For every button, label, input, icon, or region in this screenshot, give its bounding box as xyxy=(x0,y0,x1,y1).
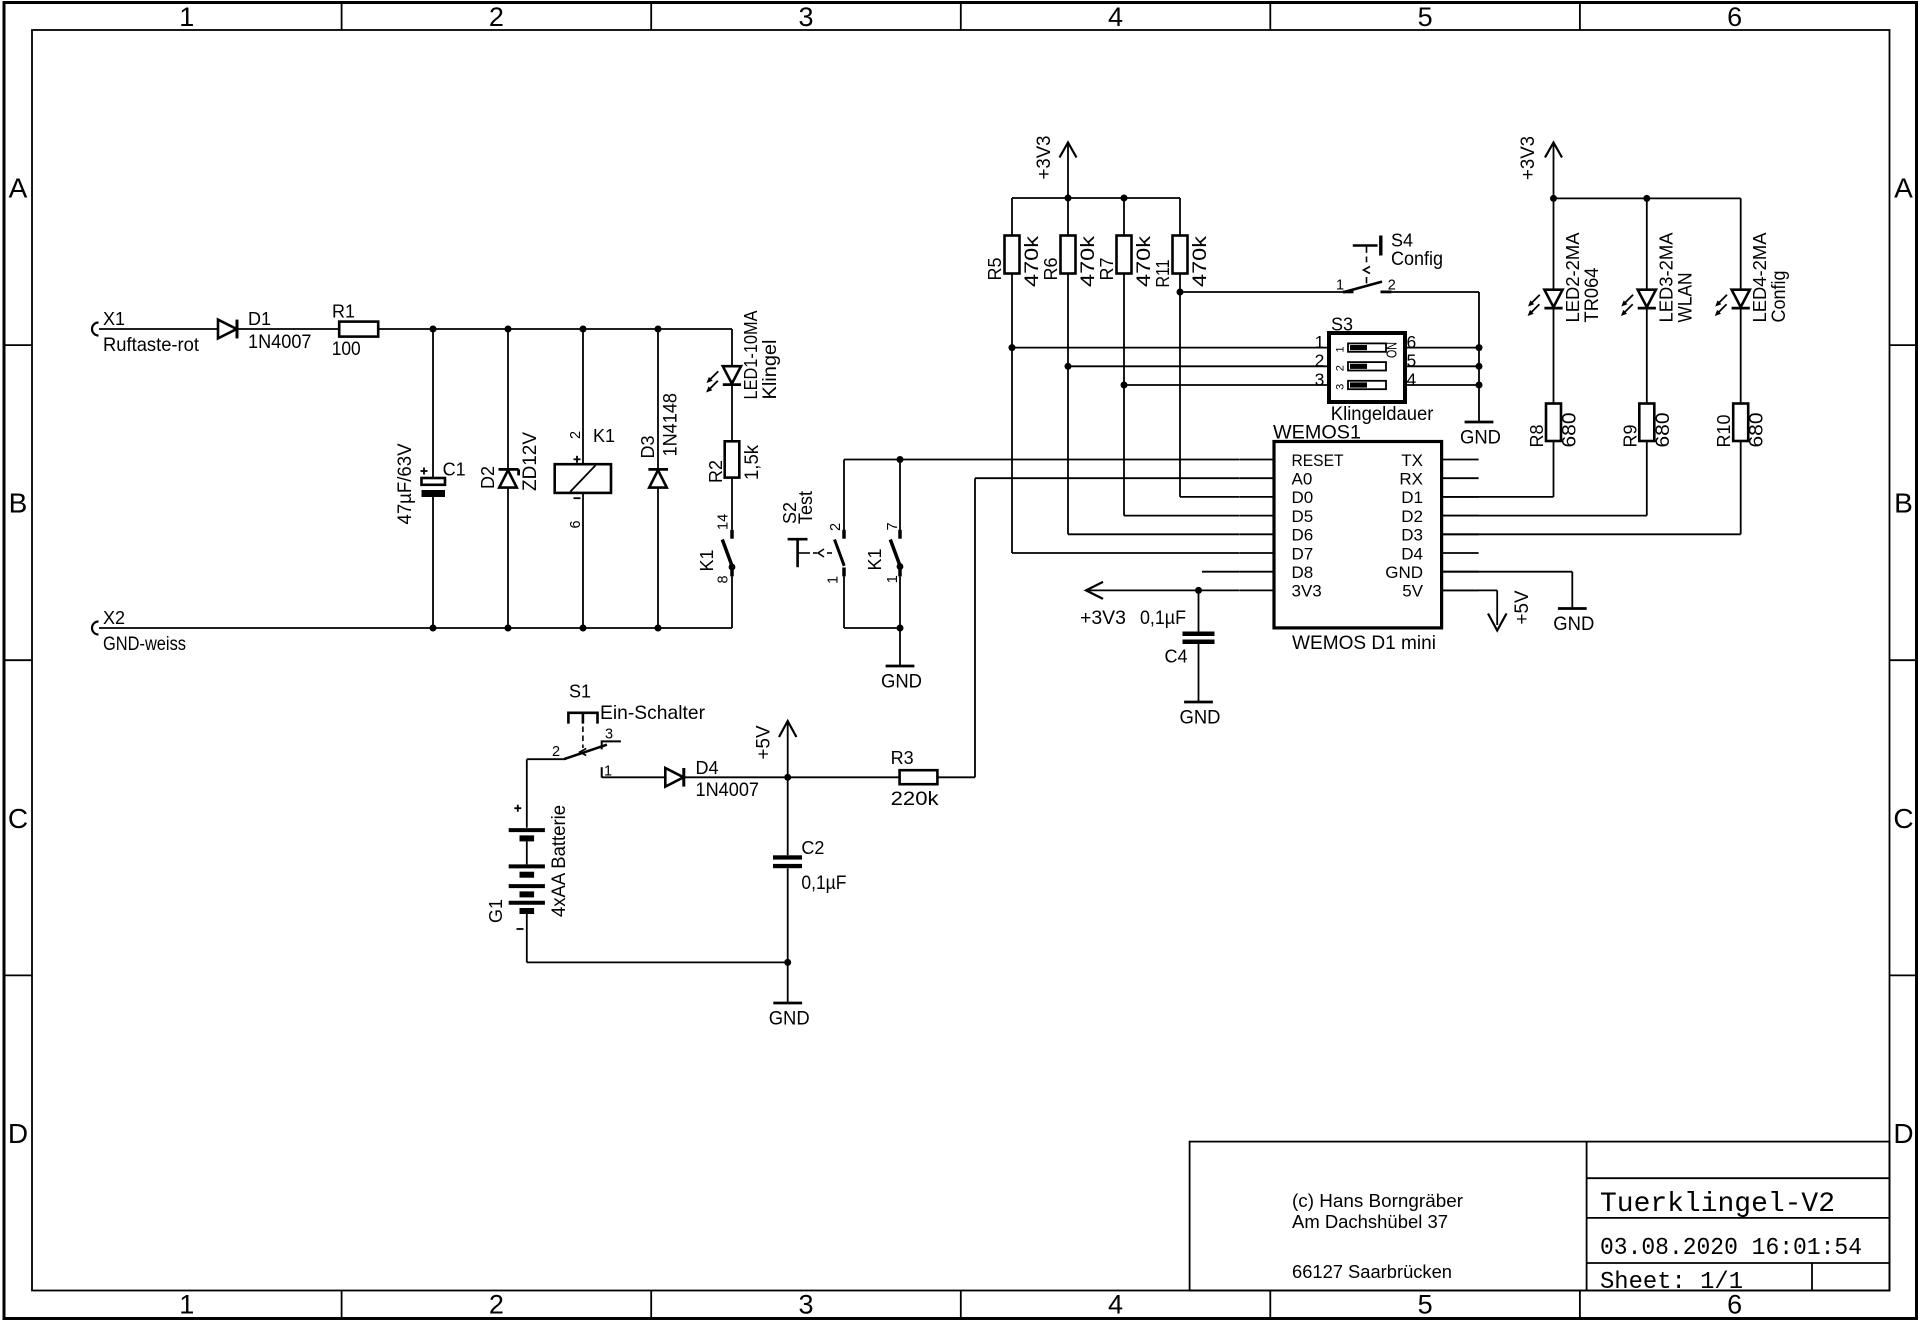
svg-text:470k: 470k xyxy=(1021,236,1043,287)
wire S3 row1 xyxy=(1012,347,1329,349)
wire S3 right stubs xyxy=(1405,347,1479,349)
junction xyxy=(505,625,512,632)
svg-text:1,5k: 1,5k xyxy=(741,445,763,480)
wire LED2-2MA to R8 xyxy=(1553,308,1555,403)
svg-text:1: 1 xyxy=(179,2,194,32)
junction xyxy=(1643,195,1650,202)
wire X1 to D1 xyxy=(99,328,218,330)
wire D1 to R1 xyxy=(237,328,339,330)
svg-text:D1: D1 xyxy=(1401,488,1423,507)
svg-text:D3: D3 xyxy=(638,435,658,458)
wire LED2-2MA top xyxy=(1553,198,1555,289)
svg-text:R1: R1 xyxy=(332,302,355,322)
svg-text:5: 5 xyxy=(1407,351,1417,371)
svg-text:0,1µF: 0,1µF xyxy=(1140,607,1186,629)
svg-text:R5: R5 xyxy=(985,257,1005,280)
svg-text:R8: R8 xyxy=(1527,424,1547,447)
svg-text:R7: R7 xyxy=(1097,257,1117,280)
svg-text:680: 680 xyxy=(1559,412,1581,447)
title block xyxy=(1190,1142,1890,1296)
svg-text:LED4-2MA: LED4-2MA xyxy=(1750,233,1770,323)
wire R1 to LED1 branch xyxy=(378,328,732,330)
wire R7 top xyxy=(1123,198,1125,236)
svg-text:470k: 470k xyxy=(1133,236,1155,287)
svg-text:GND: GND xyxy=(1385,563,1423,582)
wire D2 net xyxy=(1442,515,1647,517)
svg-text:Tuerklingel-V2: Tuerklingel-V2 xyxy=(1600,1189,1835,1220)
wire R11 top xyxy=(1179,198,1181,236)
junction xyxy=(1476,344,1483,351)
svg-text:C: C xyxy=(8,803,28,834)
wire C2 top xyxy=(787,777,789,855)
DIP switch S3 Klingeldauer xyxy=(1315,315,1434,426)
svg-text:5: 5 xyxy=(1418,2,1433,32)
svg-text:+3V3: +3V3 xyxy=(1033,136,1055,180)
junction xyxy=(1195,587,1202,594)
resistor R9 680 xyxy=(1620,404,1674,448)
wire battery+ to S1 pin2 xyxy=(527,758,564,760)
junction xyxy=(784,959,791,966)
connector X1 xyxy=(92,309,200,356)
wire S2 branch top xyxy=(843,460,845,539)
svg-text:3: 3 xyxy=(605,727,613,743)
wire R11 down to D0 xyxy=(1179,274,1181,497)
svg-text:680: 680 xyxy=(1746,412,1768,447)
svg-text:C2: C2 xyxy=(801,838,824,858)
svg-text:LED2-2MA: LED2-2MA xyxy=(1563,233,1583,323)
connector X2 xyxy=(92,608,186,655)
junction xyxy=(1065,195,1072,202)
svg-text:5: 5 xyxy=(1418,1290,1433,1320)
wire C1 branch top xyxy=(432,329,434,478)
wire R7 down xyxy=(1123,274,1125,516)
relay contact K1 14/8 xyxy=(697,514,735,584)
svg-text:C1: C1 xyxy=(443,460,466,480)
svg-text:4: 4 xyxy=(1407,369,1417,389)
svg-text:R3: R3 xyxy=(891,748,914,768)
svg-text:4: 4 xyxy=(1108,1290,1123,1320)
ground xyxy=(1460,422,1501,449)
wire D8 stub xyxy=(1202,571,1239,573)
svg-text:1: 1 xyxy=(885,575,901,583)
switch S1 Ein-Schalter xyxy=(552,682,705,780)
wire LED4-2MA to R10 xyxy=(1740,308,1742,403)
svg-text:ZD12V: ZD12V xyxy=(519,432,541,491)
wire K1 coil branch top xyxy=(582,329,584,464)
svg-text:Klingel: Klingel xyxy=(759,340,781,400)
svg-text:X2: X2 xyxy=(103,608,125,628)
svg-text:+5V: +5V xyxy=(1511,591,1533,625)
svg-text:2: 2 xyxy=(1335,365,1347,371)
wire GND pin net xyxy=(1442,571,1573,573)
svg-text:A0: A0 xyxy=(1292,470,1313,489)
junction xyxy=(784,774,791,781)
svg-text:(c) Hans Borngräber: (c) Hans Borngräber xyxy=(1292,1191,1463,1211)
svg-text:0,1µF: 0,1µF xyxy=(801,872,846,894)
wire LED rail xyxy=(1554,197,1741,199)
diode D4 1N4007 xyxy=(665,758,759,801)
wire S2 bottom xyxy=(843,576,845,628)
svg-text:2: 2 xyxy=(828,523,844,531)
resistor R10 680 xyxy=(1714,404,1768,448)
wire LED3-2MA to R9 xyxy=(1646,308,1648,403)
svg-text:Am Dachshübel 37: Am Dachshübel 37 xyxy=(1292,1212,1448,1232)
wire RESET net xyxy=(844,459,1239,461)
svg-text:5V: 5V xyxy=(1402,582,1423,601)
svg-text:D2: D2 xyxy=(1401,507,1423,526)
junction xyxy=(1009,344,1016,351)
+3V3 supply (3V3 pin) xyxy=(1080,582,1126,629)
junction xyxy=(1065,363,1072,370)
relay coil K1 xyxy=(555,426,615,529)
svg-text:R11: R11 xyxy=(1153,260,1173,288)
svg-text:WLAN: WLAN xyxy=(1674,273,1696,323)
junction xyxy=(655,625,662,632)
svg-text:4xAA Batterie: 4xAA Batterie xyxy=(548,805,570,917)
svg-text:1: 1 xyxy=(1335,346,1347,352)
+3V3 supply (LEDs) xyxy=(1517,136,1562,180)
svg-text:B: B xyxy=(9,488,28,519)
wire K1b bottom xyxy=(899,576,901,628)
wire 5V pin net xyxy=(1442,589,1498,591)
svg-text:1: 1 xyxy=(1315,332,1325,352)
svg-text:3: 3 xyxy=(798,2,813,32)
wire K1 contact to X2 rail xyxy=(731,576,733,628)
svg-text:R9: R9 xyxy=(1620,424,1640,447)
svg-text:D6: D6 xyxy=(1292,526,1314,545)
capacitor C2 0,1uF xyxy=(773,838,846,894)
svg-text:R10: R10 xyxy=(1714,414,1734,447)
svg-text:2: 2 xyxy=(489,1290,504,1320)
wire A0 net xyxy=(975,477,1239,479)
svg-text:8: 8 xyxy=(716,575,732,583)
ground xyxy=(881,666,922,693)
svg-text:D3: D3 xyxy=(1401,526,1423,545)
svg-text:Ein-Schalter: Ein-Schalter xyxy=(600,702,705,724)
svg-text:GND-weiss: GND-weiss xyxy=(103,633,186,655)
LED LED4-2MA Config xyxy=(1715,233,1790,323)
svg-text:G1: G1 xyxy=(486,899,506,923)
svg-text:Config: Config xyxy=(1391,248,1443,270)
svg-text:GND: GND xyxy=(1553,613,1594,635)
svg-text:RX: RX xyxy=(1399,470,1423,489)
wire battery gnd rail xyxy=(527,961,788,963)
svg-text:220k: 220k xyxy=(891,788,939,810)
wire +3V3 stem to LED rail xyxy=(1553,143,1555,199)
svg-text:6: 6 xyxy=(1727,2,1742,32)
push button S4 Config xyxy=(1336,231,1443,294)
svg-text:470k: 470k xyxy=(1189,236,1211,287)
wire LED1 to R2 xyxy=(731,385,733,441)
wire battery- down xyxy=(526,914,528,962)
resistor R11 470k xyxy=(1153,236,1211,288)
wire S4 to gnd column xyxy=(1392,291,1480,293)
wire S3 row3 xyxy=(1124,384,1329,386)
wire D1 net xyxy=(1442,496,1554,498)
svg-text:GND: GND xyxy=(881,671,922,693)
svg-text:RESET: RESET xyxy=(1292,451,1344,470)
wire LED1 branch top xyxy=(731,329,733,366)
svg-text:GND: GND xyxy=(1460,427,1501,449)
svg-text:2: 2 xyxy=(568,431,584,439)
svg-text:+3V3: +3V3 xyxy=(1517,136,1539,180)
resistor R7 470k xyxy=(1097,236,1155,288)
svg-text:K1: K1 xyxy=(593,426,615,446)
svg-text:K1: K1 xyxy=(865,548,885,570)
junction xyxy=(1476,363,1483,370)
svg-text:TX: TX xyxy=(1401,451,1423,470)
resistor R1 100 xyxy=(332,302,379,361)
svg-text:1N4148: 1N4148 xyxy=(660,393,682,457)
svg-text:D2: D2 xyxy=(478,466,498,489)
junction xyxy=(1550,195,1557,202)
capacitor C1 47uF/63V xyxy=(394,444,466,525)
svg-text:A: A xyxy=(9,173,28,204)
junction xyxy=(505,326,512,333)
junction xyxy=(655,326,662,333)
junction xyxy=(580,326,587,333)
resistor R2 1,5k xyxy=(706,441,763,483)
junction xyxy=(1121,382,1128,389)
svg-text:D4: D4 xyxy=(1401,544,1423,563)
WEMOS D1 mini module WEMOS1 xyxy=(1239,422,1478,655)
svg-text:D0: D0 xyxy=(1292,488,1314,507)
wire R5 down xyxy=(1011,274,1013,554)
resistor R8 680 xyxy=(1527,404,1581,448)
junction xyxy=(1177,289,1184,296)
ground xyxy=(1180,702,1221,729)
wire C2 bottom xyxy=(787,868,789,962)
wire S2/K1b gnd rail xyxy=(844,627,900,629)
svg-text:100: 100 xyxy=(332,338,361,360)
svg-text:2: 2 xyxy=(1315,351,1325,371)
svg-text:470k: 470k xyxy=(1077,236,1099,287)
wire to gnd xyxy=(899,628,901,666)
svg-text:66127 Saarbrücken: 66127 Saarbrücken xyxy=(1292,1262,1452,1282)
+3V3 supply (pull-ups) xyxy=(1033,136,1077,180)
svg-text:GND: GND xyxy=(769,1008,810,1030)
push button S2 Test xyxy=(780,490,844,584)
diode D3 1N4148 xyxy=(638,393,682,488)
svg-text:R6: R6 xyxy=(1041,257,1061,280)
wire C4 bottom xyxy=(1198,644,1200,702)
wire S3 row2 xyxy=(1068,365,1329,367)
svg-text:R2: R2 xyxy=(706,460,726,483)
svg-text:3: 3 xyxy=(1315,369,1325,389)
svg-text:C: C xyxy=(1893,803,1913,834)
svg-text:3: 3 xyxy=(798,1290,813,1320)
wire 3V3 rail xyxy=(1012,197,1180,199)
svg-text:2: 2 xyxy=(552,744,560,760)
wire D0 net xyxy=(1180,496,1239,498)
wire +3V3 stem xyxy=(1067,143,1069,199)
svg-text:D8: D8 xyxy=(1292,563,1314,582)
svg-text:D: D xyxy=(8,1118,28,1149)
wire LED4-2MA top xyxy=(1740,198,1742,289)
wire C1 bottom xyxy=(432,497,434,628)
+5V supply (5V pin) xyxy=(1488,591,1533,631)
junction xyxy=(897,625,904,632)
resistor R6 470k xyxy=(1041,236,1099,288)
junction xyxy=(430,625,437,632)
capacitor C4 0,1uF xyxy=(1140,607,1215,667)
svg-text:LED1-10MA: LED1-10MA xyxy=(741,311,761,400)
relay contact K1 7/1 xyxy=(865,522,903,583)
svg-text:WEMOS D1 mini: WEMOS D1 mini xyxy=(1292,632,1436,654)
svg-text:2: 2 xyxy=(489,2,504,32)
ground xyxy=(1553,609,1594,636)
svg-text:47µF/63V: 47µF/63V xyxy=(394,444,416,525)
svg-text:D4: D4 xyxy=(696,758,719,778)
svg-text:A: A xyxy=(1894,173,1913,204)
svg-text:S3: S3 xyxy=(1331,315,1353,335)
wire D2 branch xyxy=(507,329,509,628)
svg-text:03.08.2020 16:01:54: 03.08.2020 16:01:54 xyxy=(1600,1235,1862,1262)
svg-text:C4: C4 xyxy=(1165,647,1188,667)
wire X2 rail xyxy=(99,627,732,629)
svg-text:Config: Config xyxy=(1768,271,1790,323)
svg-text:4: 4 xyxy=(1108,2,1123,32)
svg-text:GND: GND xyxy=(1180,707,1221,729)
svg-text:WEMOS1: WEMOS1 xyxy=(1273,422,1361,444)
svg-text:1: 1 xyxy=(179,1290,194,1320)
svg-text:LED3-2MA: LED3-2MA xyxy=(1656,233,1676,323)
svg-text:D1: D1 xyxy=(248,309,271,329)
wire +5V stem xyxy=(787,721,789,777)
svg-text:B: B xyxy=(1894,488,1913,519)
LED LED3-2MA WLAN xyxy=(1621,233,1696,323)
svg-text:1N4007: 1N4007 xyxy=(248,331,312,353)
svg-text:D7: D7 xyxy=(1292,544,1314,563)
svg-text:1: 1 xyxy=(826,576,842,584)
wire R6 top xyxy=(1067,198,1069,236)
svg-text:Ruftaste-rot: Ruftaste-rot xyxy=(103,334,200,356)
wire R2 to K1 contact xyxy=(731,478,733,530)
resistor R3 220k xyxy=(891,748,939,810)
wire R5 top xyxy=(1011,198,1013,236)
ground xyxy=(769,1003,810,1030)
svg-text:+5V: +5V xyxy=(753,726,775,760)
wire 3V3 pin net xyxy=(1086,589,1239,591)
wire D3 branch xyxy=(657,329,659,628)
wire S1 pin1 to D4 xyxy=(602,776,666,778)
svg-text:3V3: 3V3 xyxy=(1292,582,1322,601)
LED LED1-10MA Klingel xyxy=(706,311,781,400)
wire to gnd xyxy=(787,962,789,1003)
wire D4 to R3 xyxy=(684,776,900,778)
svg-text:7: 7 xyxy=(885,522,901,530)
wire D7 net xyxy=(1012,552,1239,554)
+5V supply (battery) xyxy=(753,721,797,760)
svg-text:6: 6 xyxy=(568,520,584,528)
wire K1 coil bottom xyxy=(582,493,584,628)
wire LED3-2MA top xyxy=(1646,198,1648,289)
junction xyxy=(430,326,437,333)
svg-text:S1: S1 xyxy=(569,682,591,702)
svg-text:ON: ON xyxy=(1385,342,1401,358)
svg-text:1N4007: 1N4007 xyxy=(696,779,760,801)
junction xyxy=(1121,195,1128,202)
svg-text:+3V3: +3V3 xyxy=(1080,607,1126,629)
wire D5 net xyxy=(1124,515,1239,517)
svg-text:D: D xyxy=(1893,1118,1913,1149)
resistor R5 470k xyxy=(985,236,1043,288)
svg-text:K1: K1 xyxy=(697,549,717,571)
wire R3 to A0 column xyxy=(937,776,975,778)
wire D3 net xyxy=(1442,533,1741,535)
wire R6 down xyxy=(1067,274,1069,535)
wire K1b branch top xyxy=(899,460,901,539)
svg-text:TR064: TR064 xyxy=(1581,267,1603,322)
wire C4 top xyxy=(1198,590,1200,631)
svg-text:1: 1 xyxy=(1336,278,1344,294)
svg-text:X1: X1 xyxy=(103,309,125,329)
zener diode D2 ZD12V xyxy=(478,432,541,491)
wire D6 net xyxy=(1068,533,1239,535)
svg-text:14: 14 xyxy=(716,514,732,530)
svg-text:Sheet: 1/1: Sheet: 1/1 xyxy=(1600,1269,1743,1296)
svg-text:3: 3 xyxy=(1335,384,1347,390)
svg-text:6: 6 xyxy=(1407,332,1417,352)
svg-text:680: 680 xyxy=(1652,412,1674,447)
LED LED2-2MA TR064 xyxy=(1528,233,1603,323)
svg-text:Test: Test xyxy=(795,490,817,524)
battery G1 4xAA Batterie xyxy=(486,805,570,929)
wire R11 to S4 xyxy=(1180,291,1343,293)
diode D1 1N4007 xyxy=(218,309,312,353)
junction xyxy=(1476,382,1483,389)
svg-text:D5: D5 xyxy=(1292,507,1314,526)
junction xyxy=(580,625,587,632)
junction xyxy=(897,456,904,463)
